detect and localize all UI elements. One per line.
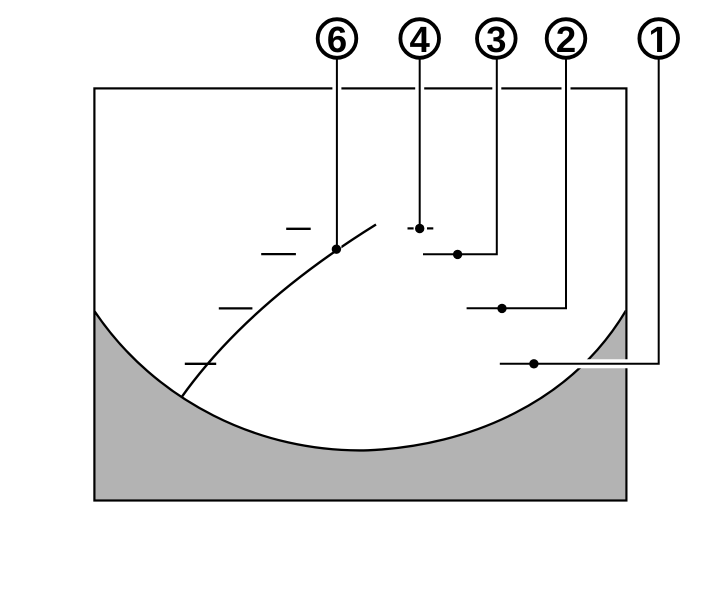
- callout dot 4: [415, 224, 424, 233]
- leader line 4: [419, 58, 421, 229]
- white casings for leader lines: [337, 58, 659, 364]
- callout dot 3: [453, 250, 462, 259]
- callout circle 2: [547, 19, 586, 58]
- callout dot 6: [332, 245, 341, 254]
- gray basin fill: [94, 311, 626, 501]
- leader line 6: [336, 58, 338, 249]
- basin boundary curve: [94, 311, 626, 451]
- tick mark 3: [219, 307, 253, 309]
- callout circle 3: [477, 19, 516, 58]
- leader line 3: [423, 58, 497, 254]
- tick mark 4: [185, 363, 216, 365]
- tick mark 2: [261, 253, 296, 255]
- callout circle 1: [639, 19, 678, 58]
- tick mark 1: [286, 228, 311, 230]
- callout circle 6: [318, 19, 357, 58]
- leader line 2: [467, 58, 566, 308]
- callout dot 1: [529, 359, 538, 368]
- needle arc curve: [181, 225, 376, 398]
- leader line 1: [500, 58, 659, 364]
- callout circle 4: [400, 19, 439, 58]
- display outline rectangle: [94, 88, 626, 500]
- split tick near item 4: [408, 227, 414, 229]
- callout dot 2: [497, 304, 506, 313]
